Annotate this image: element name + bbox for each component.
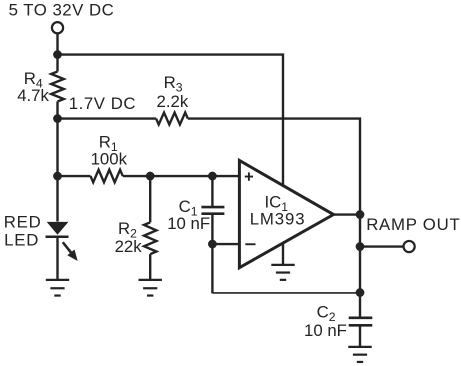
wire left rail R4 to LED <box>56 102 58 222</box>
resistor R4 <box>51 72 64 102</box>
wire bottom feedback run <box>212 292 360 294</box>
ground op-amp <box>271 265 294 280</box>
wire op-amp ground pin <box>282 243 284 265</box>
svg-text:10 nF: 10 nF <box>304 321 347 340</box>
resistor R2 <box>144 222 156 254</box>
resistor R3 <box>156 113 188 125</box>
capacitor C2 <box>349 318 373 326</box>
wire R3 to output node <box>188 119 360 293</box>
svg-text:RAMP OUT: RAMP OUT <box>366 215 460 234</box>
wire ramp out <box>360 245 404 247</box>
svg-text:1.7V DC: 1.7V DC <box>69 94 136 113</box>
node VIN terminal <box>52 22 63 33</box>
svg-text:10 nF: 10 nF <box>167 214 210 233</box>
wire C2 top lead <box>359 293 361 318</box>
svg-text:LM393: LM393 <box>250 210 306 229</box>
node C2 top <box>356 288 365 297</box>
wire terminal to R4 <box>56 33 58 71</box>
ground LED <box>46 280 69 296</box>
node R1 left <box>53 172 62 181</box>
wire R2 to ground <box>149 254 151 280</box>
wire R1 to op-amp plus input <box>123 175 240 177</box>
svg-text:5 TO 32V DC: 5 TO 32V DC <box>9 1 115 20</box>
LED D1 <box>46 222 78 280</box>
svg-text:100k: 100k <box>91 150 128 169</box>
node RAMP OUT terminal <box>404 241 415 252</box>
svg-text:4.7k: 4.7k <box>17 86 49 105</box>
node 1.7V <box>53 114 62 123</box>
resistor R1 <box>91 170 123 183</box>
capacitor C1 <box>201 207 224 214</box>
wire minus input <box>212 243 239 245</box>
node R2 top <box>146 172 155 181</box>
wire C2 to ground <box>359 325 361 347</box>
node output <box>356 210 365 219</box>
ground C2 <box>348 347 371 362</box>
ground R2 <box>139 280 162 296</box>
node C1 top <box>208 172 217 181</box>
wire top supply horizontal <box>58 55 284 187</box>
node ramp out <box>356 242 365 251</box>
svg-text:22k: 22k <box>115 237 143 256</box>
node C1 bottom <box>208 240 217 249</box>
wire 1.7V node to R3 <box>58 117 157 119</box>
node supply <box>53 50 62 59</box>
svg-text:RED: RED <box>4 212 42 231</box>
wire op-amp output <box>334 213 361 215</box>
wire R2 top lead <box>149 176 151 222</box>
wire C1 top lead <box>211 176 213 207</box>
svg-text:LED: LED <box>4 231 39 250</box>
wire C1 bottom lead down <box>211 214 213 294</box>
svg-text:2.2k: 2.2k <box>157 92 189 111</box>
wire R1 left lead <box>58 175 91 177</box>
op-amp U1 <box>239 160 333 267</box>
